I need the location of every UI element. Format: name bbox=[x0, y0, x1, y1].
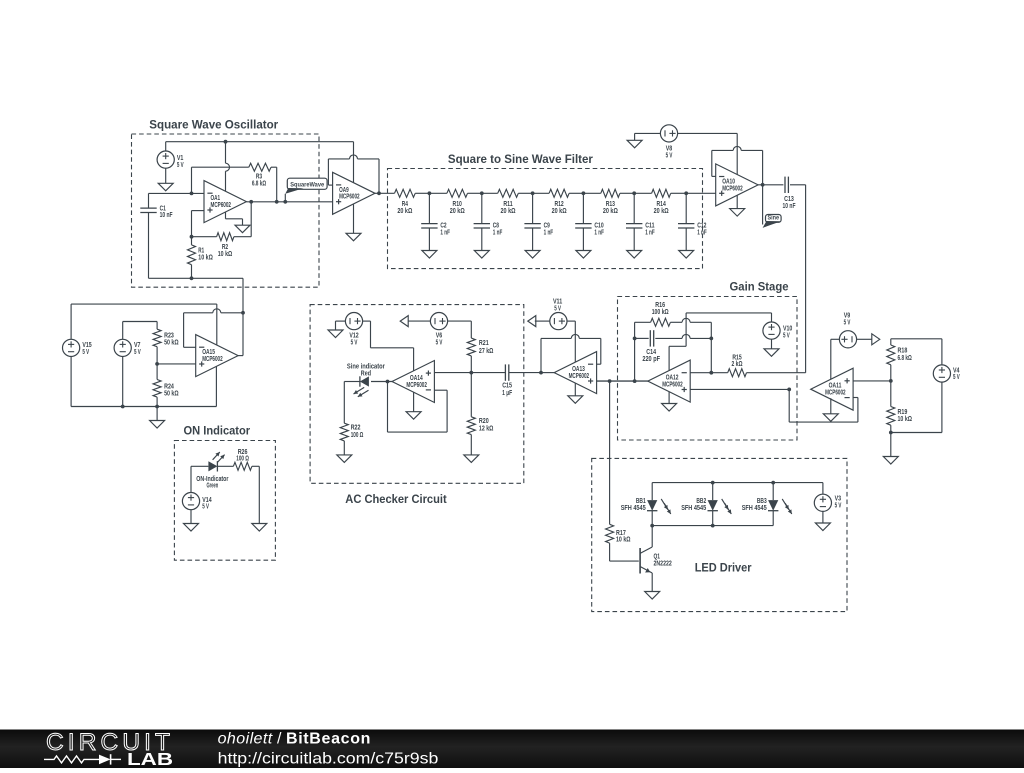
svg-text:R18: R18 bbox=[898, 348, 908, 355]
svg-text:BB1: BB1 bbox=[636, 498, 646, 505]
svg-text:SFH 4545: SFH 4545 bbox=[681, 505, 706, 512]
svg-text:Square to Sine Wave Filter: Square to Sine Wave Filter bbox=[448, 152, 593, 166]
svg-text:V6: V6 bbox=[436, 333, 443, 340]
svg-text:ON Indicator: ON Indicator bbox=[184, 424, 251, 438]
svg-text:BB3: BB3 bbox=[757, 498, 767, 505]
svg-text:220 pF: 220 pF bbox=[642, 356, 660, 363]
svg-text:50 kΩ: 50 kΩ bbox=[164, 340, 179, 347]
svg-text:V9: V9 bbox=[844, 312, 851, 319]
svg-text:10 nF: 10 nF bbox=[783, 203, 796, 210]
svg-text:5 V: 5 V bbox=[783, 333, 790, 340]
svg-text:MCP6002: MCP6002 bbox=[569, 373, 590, 380]
svg-text:SFH 4545: SFH 4545 bbox=[742, 505, 767, 512]
svg-text:R21: R21 bbox=[479, 340, 489, 347]
svg-text:6.8 kΩ: 6.8 kΩ bbox=[898, 355, 913, 362]
svg-text:V8: V8 bbox=[666, 146, 673, 153]
svg-text:5 V: 5 V bbox=[202, 504, 209, 511]
svg-text:10 kΩ: 10 kΩ bbox=[218, 251, 233, 258]
svg-text:100 Ω: 100 Ω bbox=[236, 455, 249, 462]
svg-text:5 V: 5 V bbox=[82, 349, 89, 356]
svg-text:Sine: Sine bbox=[767, 215, 779, 222]
svg-text:10 kΩ: 10 kΩ bbox=[198, 255, 213, 262]
svg-text:V10: V10 bbox=[783, 326, 792, 333]
svg-text:1 nF: 1 nF bbox=[645, 229, 655, 236]
svg-text:20 kΩ: 20 kΩ bbox=[603, 208, 618, 215]
svg-text:27 kΩ: 27 kΩ bbox=[479, 348, 494, 355]
svg-text:V3: V3 bbox=[835, 495, 842, 502]
svg-text:R2: R2 bbox=[222, 244, 228, 251]
svg-text:5 V: 5 V bbox=[351, 340, 358, 347]
svg-text:Square Wave Oscillator: Square Wave Oscillator bbox=[149, 118, 278, 132]
svg-text:AC Checker Circuit: AC Checker Circuit bbox=[345, 492, 446, 506]
svg-text:5 V: 5 V bbox=[835, 502, 842, 509]
svg-text:V1: V1 bbox=[177, 155, 184, 162]
svg-text:100 kΩ: 100 kΩ bbox=[652, 309, 669, 316]
svg-text:V15: V15 bbox=[82, 342, 91, 349]
svg-text:R24: R24 bbox=[164, 384, 174, 391]
svg-text:20 kΩ: 20 kΩ bbox=[397, 208, 412, 215]
svg-text:BB2: BB2 bbox=[696, 498, 706, 505]
svg-text:V11: V11 bbox=[553, 299, 562, 306]
svg-text:12 kΩ: 12 kΩ bbox=[479, 426, 494, 433]
svg-text:R19: R19 bbox=[898, 409, 908, 416]
svg-text:http://circuitlab.com/c75r9sb: http://circuitlab.com/c75r9sb bbox=[218, 751, 439, 768]
svg-text:2 kΩ: 2 kΩ bbox=[732, 361, 743, 368]
svg-text:10 nF: 10 nF bbox=[160, 212, 173, 219]
svg-text:MCP6002: MCP6002 bbox=[211, 202, 232, 209]
svg-text:5 V: 5 V bbox=[844, 320, 851, 327]
svg-text:R22: R22 bbox=[351, 425, 361, 432]
svg-text:ohoilett / BitBeacon: ohoilett / BitBeacon bbox=[218, 731, 371, 748]
svg-text:MCP6002: MCP6002 bbox=[406, 382, 427, 389]
svg-text:5 V: 5 V bbox=[953, 374, 960, 381]
svg-text:LED Driver: LED Driver bbox=[695, 561, 752, 575]
svg-text:LAB: LAB bbox=[127, 749, 173, 768]
svg-text:V7: V7 bbox=[134, 342, 141, 349]
svg-text:V12: V12 bbox=[349, 333, 358, 340]
svg-text:R20: R20 bbox=[479, 418, 489, 425]
svg-text:20 kΩ: 20 kΩ bbox=[552, 208, 567, 215]
svg-text:1 nF: 1 nF bbox=[544, 229, 554, 236]
svg-text:2N2222: 2N2222 bbox=[654, 560, 672, 567]
svg-text:MCP6002: MCP6002 bbox=[825, 390, 846, 397]
svg-text:5 V: 5 V bbox=[666, 153, 673, 160]
svg-text:MCP6002: MCP6002 bbox=[202, 356, 223, 363]
svg-text:100 Ω: 100 Ω bbox=[351, 432, 364, 439]
svg-text:20 kΩ: 20 kΩ bbox=[450, 208, 465, 215]
svg-text:1 nF: 1 nF bbox=[440, 229, 450, 236]
svg-text:SFH 4545: SFH 4545 bbox=[621, 505, 646, 512]
svg-text:R23: R23 bbox=[164, 333, 174, 340]
svg-text:20 kΩ: 20 kΩ bbox=[654, 208, 669, 215]
svg-text:Gain Stage: Gain Stage bbox=[730, 280, 789, 294]
svg-text:50 kΩ: 50 kΩ bbox=[164, 391, 179, 398]
svg-text:Green: Green bbox=[207, 482, 219, 489]
svg-text:C15: C15 bbox=[502, 383, 512, 390]
svg-text:1 nF: 1 nF bbox=[493, 229, 503, 236]
svg-text:5 V: 5 V bbox=[436, 340, 443, 347]
svg-text:R1: R1 bbox=[198, 248, 204, 255]
svg-text:10 kΩ: 10 kΩ bbox=[616, 537, 631, 544]
svg-text:MCP6002: MCP6002 bbox=[722, 185, 743, 192]
svg-text:MCP6002: MCP6002 bbox=[339, 194, 360, 201]
svg-text:1 µF: 1 µF bbox=[502, 390, 512, 397]
svg-text:10 kΩ: 10 kΩ bbox=[898, 416, 913, 423]
svg-text:1 nF: 1 nF bbox=[594, 229, 604, 236]
svg-text:1 nF: 1 nF bbox=[697, 229, 707, 236]
svg-text:5 V: 5 V bbox=[554, 306, 561, 313]
svg-text:MCP6002: MCP6002 bbox=[662, 382, 683, 389]
svg-text:5 V: 5 V bbox=[134, 349, 141, 356]
svg-text:SquareWave: SquareWave bbox=[290, 182, 324, 189]
svg-text:R3: R3 bbox=[256, 174, 262, 181]
svg-text:Red: Red bbox=[361, 371, 371, 378]
svg-text:Sine indicator: Sine indicator bbox=[347, 363, 385, 370]
svg-text:20 kΩ: 20 kΩ bbox=[501, 208, 516, 215]
svg-text:6.8 kΩ: 6.8 kΩ bbox=[252, 181, 267, 188]
svg-text:5 V: 5 V bbox=[177, 162, 184, 169]
